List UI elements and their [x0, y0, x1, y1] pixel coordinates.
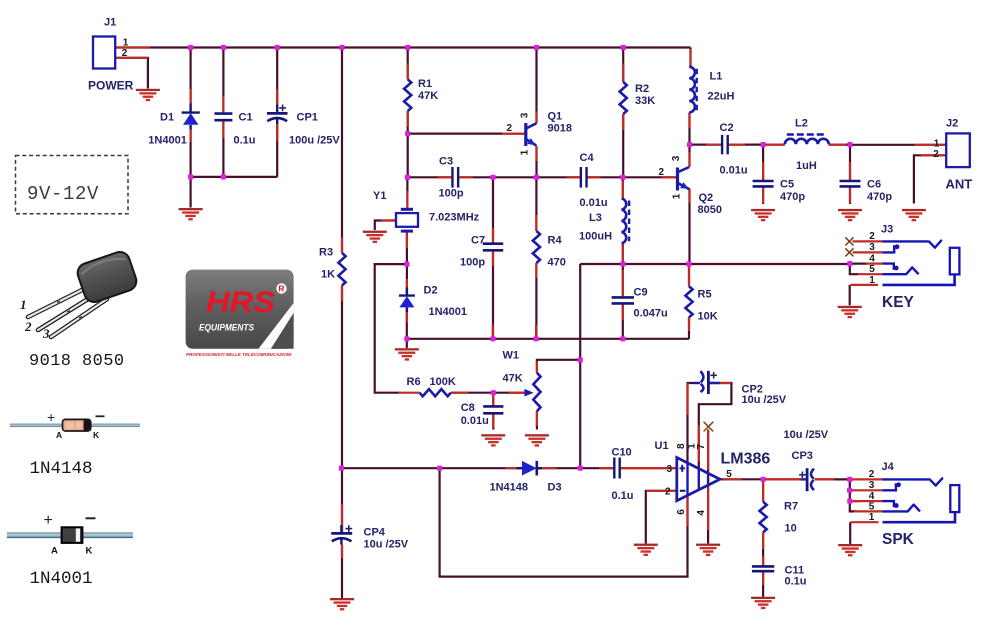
svg-text:5: 5: [869, 501, 875, 512]
wire C4 to L3 node: [587, 176, 623, 178]
ground D2: [395, 348, 419, 360]
wire node to D2: [406, 264, 408, 296]
svg-text:8050: 8050: [698, 204, 722, 216]
svg-text:C8: C8: [461, 402, 475, 414]
wire red pin lead (852.5,252.4)-(882.5,252.4): [853, 251, 883, 253]
node junction (342,47.5): [339, 45, 344, 50]
pin 7 label U1: [696, 443, 707, 449]
pin 2 label J1: [122, 48, 128, 59]
wire Y1 case to ground: [375, 221, 396, 231]
wire red pin lead (620.2,468.2)-(676,468.2): [620, 467, 676, 469]
pin 4 label U1: [696, 510, 707, 516]
svg-text:3: 3: [519, 112, 530, 118]
wire Q2 collector: [688, 145, 690, 167]
wire U1 pin 2 to ground: [646, 491, 676, 544]
capacitor CP2 electrolytic: [695, 371, 787, 406]
svg-text:1: 1: [934, 138, 940, 149]
svg-text:C9: C9: [634, 287, 648, 299]
svg-text:SPK: SPK: [882, 531, 915, 548]
wire red pin lead (851.5,479.4)-(882.5,479.4): [852, 478, 883, 480]
wire red pin lead (622.8,243.5)-(622.8,261): [622, 244, 624, 262]
wire C1 branch lower: [222, 120, 224, 176]
svg-text:1: 1: [869, 512, 875, 523]
ground J1: [136, 89, 160, 101]
node junction (622.8,177.3): [620, 175, 625, 180]
resistor R3 1K: [319, 247, 346, 286]
node junction (190.6,47.5): [188, 45, 193, 50]
diode package photo 1N4001: [7, 512, 133, 557]
wire R2 bottom to node: [622, 114, 624, 177]
wire red pin lead (850,186.6)-(850,203.3): [849, 187, 851, 204]
capacitor C11 0.1u: [752, 565, 807, 588]
wire C11 to ground: [762, 571, 764, 597]
svg-text:K: K: [86, 546, 93, 557]
capacitor C3 100p: [439, 156, 464, 200]
ground C6: [838, 209, 862, 221]
wire C6 leads: [849, 145, 851, 204]
wire R2 column upper: [622, 48, 624, 83]
wire red pin lead (690.5,49)-(690.5,66.6): [689, 49, 691, 67]
wire red pin lead (662,177.3)-(675.8,177.3): [662, 176, 676, 178]
ground J4: [838, 544, 862, 556]
wire U1 pin 8 riser to CP2: [688, 383, 697, 463]
wire red pin lead (508.5,392.7)-(524.5,392.7): [509, 392, 525, 394]
node junction (622.8,264): [620, 261, 625, 266]
ground C8: [481, 434, 505, 446]
wire C7 upper lead: [492, 177, 494, 243]
svg-text:CP1: CP1: [297, 111, 318, 123]
svg-text:2: 2: [506, 123, 512, 134]
wire red pin lead (407.4,191)-(407.4,209.1): [406, 191, 408, 209]
wire J2 pin 2 to ground: [914, 155, 946, 203]
node junction (849.8,479.4): [847, 477, 852, 482]
node junction (190.6,176.9): [188, 174, 193, 179]
wire red pin lead (493,250.5)-(493,266): [492, 251, 494, 267]
inductor L3 100uH: [579, 199, 629, 244]
capacitor C7 100p: [460, 235, 503, 269]
wire node to pot top: [537, 360, 580, 373]
wire R3 column upper: [341, 48, 343, 254]
svg-text:4: 4: [869, 491, 875, 502]
svg-text:3: 3: [671, 155, 682, 161]
wire red pin lead (223.4,120.5)-(223.4,138): [222, 121, 224, 139]
pin 3 label U1: [666, 464, 672, 475]
svg-text:R: R: [278, 284, 284, 294]
svg-text:7.023MHz: 7.023MHz: [429, 212, 480, 224]
svg-text:0.1u: 0.1u: [785, 576, 807, 588]
wire red pin lead (493.3,394.5)-(493.3,406): [492, 395, 494, 407]
wire D1 branch upper: [190, 48, 192, 105]
wire R7 top lead: [762, 479, 764, 502]
wire +V top bus from J1 pin 1 to L1: [115, 46, 691, 48]
node junction (493.3,392.7): [491, 390, 496, 395]
ground J2: [902, 209, 926, 221]
wire L1 column: [689, 48, 691, 67]
wire red pin lead (852.5,241.4)-(882.5,241.4): [853, 240, 883, 242]
connector J2 ANT: [946, 117, 973, 191]
node junction (277.2,47.5): [275, 45, 280, 50]
svg-text:D3: D3: [548, 482, 562, 494]
wire red pin lead (851.8,501.1)-(882.5,501.1): [852, 500, 883, 502]
wire J3 pin 1 to ground: [849, 285, 851, 305]
svg-text:0.01u: 0.01u: [720, 165, 748, 177]
capacitor C6 470p: [840, 179, 893, 203]
wire red pin lead (763.1,162)-(763.1,180.8): [762, 162, 764, 181]
wire red pin lead (536.5,145.9)-(536.5,161): [535, 146, 537, 161]
svg-text:47K: 47K: [418, 90, 438, 102]
pin 3 label Q1: [519, 112, 530, 118]
wire J3 pin 4 stub: [850, 263, 866, 265]
wire J1 pin 2 to ground: [115, 58, 148, 89]
svg-text:1N4001: 1N4001: [429, 306, 468, 318]
svg-text:0.01u: 0.01u: [461, 415, 489, 427]
connector J1: [88, 17, 134, 93]
svg-text:100p: 100p: [460, 257, 485, 269]
wire C8 node to pot wiper: [493, 392, 524, 394]
svg-text:C5: C5: [780, 179, 794, 191]
capacitor C5 470p: [753, 179, 806, 203]
wire C9 upper lead: [622, 264, 624, 296]
svg-text:470p: 470p: [867, 191, 892, 203]
wire red pin lead (687.5,497)-(687.5,526): [686, 497, 688, 526]
svg-text:2: 2: [665, 487, 671, 498]
wire C2 to C5 node: [728, 144, 763, 146]
svg-text:Q1: Q1: [548, 111, 563, 123]
svg-text:A: A: [56, 430, 62, 440]
node junction (849.8,263.6): [847, 261, 852, 266]
ground U1 pin 4: [696, 544, 720, 556]
wire R1 column upper: [407, 48, 409, 80]
svg-text:0.047u: 0.047u: [634, 308, 668, 320]
ground C11: [751, 597, 775, 609]
ground C5: [751, 209, 775, 221]
wire C10 to U1 pin 3: [620, 467, 676, 469]
svg-text:4: 4: [869, 253, 875, 264]
svg-text:470p: 470p: [780, 191, 805, 203]
wire collector node to C2: [690, 144, 723, 146]
svg-text:2: 2: [933, 149, 939, 160]
svg-text:22uH: 22uH: [708, 91, 735, 103]
ground CP4: [330, 598, 354, 610]
capacitor C9 0.047u: [612, 287, 668, 320]
node junction (622.8,338.8): [620, 336, 625, 341]
capacitor C4 0.01u: [580, 152, 608, 209]
node junction (536.1,338.8): [534, 336, 539, 341]
pin 5 label J4: [869, 501, 875, 512]
node junction (407.7,133.6): [405, 131, 410, 136]
wire red pin lead (190.6,129.5)-(190.6,142): [190, 130, 192, 143]
wire L2 to C6 node: [829, 144, 850, 146]
wire keying line: [580, 263, 850, 265]
wire red pin lead (566.5,177.3)-(580.5,177.3): [567, 176, 581, 178]
wire red pin lead (406.9,231.3)-(406.9,248): [406, 231, 408, 248]
wire red pin lead (689.5,152.5)-(689.5,166.5): [688, 153, 690, 167]
wire CP1 branch upper: [276, 48, 278, 105]
wire red pin lead (505.5,468.2)-(521.6,468.2): [506, 467, 522, 469]
node junction (689.5,144.6): [687, 142, 692, 147]
pin 1 label Q2: [672, 193, 683, 199]
ground W1: [525, 434, 549, 446]
no-connect X J3 pin 3: [846, 249, 853, 256]
wire node to Y1 top: [406, 177, 408, 209]
transistor Q2 8050: [678, 167, 722, 216]
wire red pin lead (493,228)-(493,243.6): [492, 228, 494, 244]
svg-text:PROFESSIONISTI NELLE TELECOMUN: PROFESSIONISTI NELLE TELECOMUNICAZIONI: [186, 352, 292, 357]
wire red pin lead (763.1,186.6)-(763.1,203.3): [762, 187, 764, 204]
wire red pin lead (850,162)-(850,180.8): [849, 162, 851, 181]
node junction (580.2,360): [578, 357, 583, 362]
svg-text:D1: D1: [160, 111, 174, 123]
node junction (407.4,177.3): [405, 175, 410, 180]
wire red pin lead (689,317.3)-(689,331): [688, 317, 690, 331]
wire U1 output pin 5: [720, 478, 763, 480]
wire D2 node to ground: [406, 339, 408, 348]
ground Y1 case: [363, 231, 387, 243]
svg-text:EQUIPMENTS: EQUIPMENTS: [199, 323, 254, 333]
svg-text:10u /25V: 10u /25V: [784, 429, 829, 441]
svg-text:1: 1: [672, 193, 683, 199]
svg-text:R1: R1: [418, 78, 432, 90]
pin 3 label J4: [869, 480, 875, 491]
svg-text:1N4001: 1N4001: [30, 569, 93, 589]
wire red pin lead (342,544.5)-(342,558): [341, 545, 343, 559]
node junction (763.1,144.6): [761, 142, 766, 147]
svg-text:C1: C1: [239, 111, 253, 123]
label 1N4148: [30, 459, 93, 479]
wire red pin lead (536.5,111.5)-(536.5,123.3): [535, 112, 537, 124]
wire J4 pin 4 stub: [850, 500, 860, 502]
svg-text:J1: J1: [104, 17, 116, 29]
resistor R2 33K: [620, 82, 656, 114]
wire red pin lead (728,144.6)-(745,144.6): [728, 144, 745, 146]
wire C9 lower lead: [622, 305, 624, 339]
svg-text:2: 2: [24, 319, 32, 334]
wire red pin lead (536.4,263.2)-(536.4,278): [535, 263, 537, 278]
svg-text:3: 3: [869, 242, 875, 253]
wire pot bottom lead: [536, 411, 538, 429]
wire C3 line left: [407, 176, 451, 178]
wire Y1 bottom to node: [406, 231, 408, 264]
wire red pin lead (850.4,522.2)-(878.5,522.2): [850, 521, 878, 523]
svg-text:0.01u: 0.01u: [580, 197, 608, 209]
svg-text:8: 8: [676, 443, 687, 449]
wire R4 upper lead: [535, 177, 537, 231]
svg-text:10: 10: [785, 523, 797, 535]
svg-text:Y1: Y1: [373, 190, 386, 202]
ground U1 pin 2: [634, 544, 658, 556]
svg-text:D2: D2: [424, 285, 438, 297]
node junction (492.8,338.8): [490, 336, 495, 341]
node junction (689,264): [686, 261, 691, 266]
wire node to CP3: [763, 478, 801, 480]
wire red pin lead (492.8,324.5)-(492.8,338): [492, 325, 494, 339]
wire red pin lead (851.5,490.3)-(882.5,490.3): [852, 489, 883, 491]
wire red pin lead (719.7,383)-(731,383): [720, 382, 731, 384]
wire red pin lead (277.2,89)-(277.2,104.5): [276, 89, 278, 105]
label 1N4001: [30, 569, 93, 589]
node junction (849.6,490.3): [847, 488, 852, 493]
wire L3 bottom to node: [622, 243, 624, 264]
node junction (406.8,338.8): [404, 336, 409, 341]
svg-text:+: +: [44, 512, 53, 529]
wire red pin lead (115.2,57.8)-(147.9,57.8): [115, 57, 148, 59]
wire emitter node to C4: [536, 176, 580, 178]
wire Q1 collector column: [535, 48, 537, 124]
wire red pin lead (766,144.6)-(784.6,144.6): [766, 144, 785, 146]
pin 1 label U1: [687, 443, 698, 449]
inductor L1 22uH: [689, 67, 734, 113]
wire red pin lead (623.2,63.5)-(623.2,82): [622, 64, 624, 83]
pin 4 label J3: [869, 253, 875, 264]
wire red pin lead (406.9,279)-(406.9,287.5): [406, 279, 408, 288]
wire U1 pin 4 to ground: [707, 485, 709, 544]
svg-text:R6: R6: [407, 376, 421, 388]
wire J3 pin 4-5 tie: [850, 264, 858, 275]
wire red pin lead (828.8,144.6)-(846,144.6): [829, 144, 846, 146]
svg-text:1: 1: [20, 297, 27, 312]
pin 1 label Q1: [519, 149, 530, 155]
wire red pin lead (536.1,324.5)-(536.1,338): [535, 325, 537, 339]
pin 1 label J2: [934, 138, 940, 149]
capacitor CP3 electrolytic: [784, 429, 829, 491]
node junction (223.4,47.5): [221, 45, 226, 50]
voltage note 9V-12V: [16, 156, 129, 214]
wire red pin lead (115.2,47.5)-(150,47.5): [115, 46, 150, 48]
svg-text:10u /25V: 10u /25V: [742, 394, 787, 406]
label SPK: [882, 531, 915, 548]
crystal Y1 7.023MHz: [373, 190, 480, 231]
node junction (406.9,264.1): [404, 262, 409, 267]
pin 2 label U1: [665, 487, 671, 498]
node junction (763.1,479.3): [761, 477, 766, 482]
svg-text:47K: 47K: [503, 373, 523, 385]
svg-text:1: 1: [869, 275, 875, 286]
svg-text:C4: C4: [580, 152, 595, 164]
svg-text:W1: W1: [503, 350, 520, 362]
wire R3 column lower: [341, 285, 343, 468]
wire red pin lead (763.1,571.5)-(763.1,585): [762, 572, 764, 586]
svg-text:5: 5: [726, 469, 732, 480]
wire L3 top lead: [622, 177, 624, 198]
svg-text:KEY: KEY: [882, 294, 915, 311]
wire CP4 branch: [341, 468, 343, 598]
ground J3: [838, 306, 862, 318]
transistor package photo 9018 8050: [20, 249, 139, 341]
wire R1 bottom to base node: [407, 111, 409, 177]
wire red pin lead (407.7,63.5)-(407.7,79.3): [407, 64, 409, 80]
wire C6 node to J2 pin 1: [850, 144, 946, 146]
pin 8 label U1: [676, 443, 687, 449]
wire C8 leads: [492, 393, 494, 430]
wire D2 to bottom rail: [406, 308, 408, 339]
pin 5 label U1: [726, 469, 732, 480]
svg-text:4: 4: [696, 510, 707, 516]
svg-text:3: 3: [666, 464, 672, 475]
wire J4 pin 1 to ground: [849, 522, 851, 544]
wire D1 branch lower: [190, 129, 192, 177]
svg-text:100K: 100K: [430, 376, 456, 388]
svg-text:1: 1: [123, 37, 129, 48]
svg-text:3: 3: [42, 326, 50, 341]
pin 2 label Q2: [658, 167, 664, 178]
capacitor C10 0.1u: [612, 447, 634, 502]
svg-text:L1: L1: [710, 71, 723, 83]
wire R5 top lead: [688, 264, 690, 286]
label KEY: [882, 294, 915, 311]
pin 1 label J4: [869, 512, 875, 523]
svg-text:10K: 10K: [698, 311, 718, 323]
svg-text:9V-12V: 9V-12V: [27, 183, 99, 205]
wire red pin lead (866,263.6)-(882.5,263.6): [866, 263, 883, 265]
resistor R6 100K: [407, 376, 456, 396]
potentiometer W1 47K: [503, 350, 541, 412]
svg-text:+: +: [47, 409, 55, 425]
pin 5 label J3: [869, 264, 875, 275]
svg-text:J4: J4: [882, 461, 895, 473]
svg-text:C10: C10: [612, 447, 632, 459]
pin 2 label J2: [933, 149, 939, 160]
svg-text:LM386: LM386: [721, 451, 771, 468]
wire red pin lead (708.1,430)-(708.1,469.5): [707, 430, 709, 470]
pin 2 label J3: [869, 231, 875, 242]
wire red pin lead (914.5,144.8)-(946,144.8): [915, 144, 947, 146]
wire R5 bottom lead: [688, 317, 690, 339]
label 9018 8050: [29, 352, 124, 371]
diode D1 1N4001: [148, 104, 200, 147]
wire R6 to C8 node: [451, 392, 494, 394]
svg-text:9018: 9018: [548, 123, 572, 135]
svg-text:1N4001: 1N4001: [148, 135, 187, 147]
svg-text:C6: C6: [867, 179, 881, 191]
node junction (623.2,47.5): [621, 45, 626, 50]
svg-text:R4: R4: [548, 235, 563, 247]
svg-text:J3: J3: [881, 224, 893, 236]
op-amp U1 LM386: [655, 440, 771, 501]
node junction (580.2,468.2): [578, 466, 583, 471]
svg-text:100u /25V: 100u /25V: [289, 135, 340, 147]
svg-text:2: 2: [869, 469, 875, 480]
wire red pin lead (763.1,481)-(763.1,501.6): [762, 481, 764, 502]
svg-text:0.1u: 0.1u: [234, 135, 256, 147]
wire red pin lead (921,155.3)-(946,155.3): [921, 154, 946, 156]
wire red pin lead (858,274.2)-(882.5,274.2): [858, 273, 883, 275]
wire red pin lead (493.3,413.7)-(493.3,428): [492, 414, 494, 428]
pin 3 label J3: [869, 242, 875, 253]
pin 1 label J3: [869, 275, 875, 286]
wire L3 node to Q2 base: [623, 176, 676, 178]
wire node left to R6: [375, 264, 407, 393]
wire C5 node to L2: [763, 144, 785, 146]
svg-text:470: 470: [548, 257, 566, 269]
wire C7 lower lead: [492, 250, 494, 338]
wire red pin lead (437.8,177.3)-(451.2,177.3): [438, 176, 451, 178]
wire red pin lead (502,133.6)-(524.5,133.6): [502, 133, 525, 135]
wire red pin lead (646.5,490.8)-(676,490.8): [647, 490, 677, 492]
wire red pin lead (536.9,411.3)-(536.9,426): [536, 411, 538, 426]
wire red pin lead (721,479.3)-(741.5,479.3): [721, 478, 742, 480]
wire V+ feedback to U1 pin 6: [440, 468, 688, 576]
wire red pin lead (459.6,177.3)-(473,177.3): [460, 176, 473, 178]
node junction (341.4,468.2): [339, 466, 344, 471]
svg-text:5: 5: [869, 264, 875, 275]
node junction (850,144.6): [847, 142, 852, 147]
diode package photo 1N4148: [10, 409, 140, 440]
svg-text:J2: J2: [946, 117, 958, 129]
pin 3 label Q2: [671, 155, 682, 161]
capacitor C8 0.01u: [461, 402, 504, 427]
node junction (536.4,177.3): [534, 175, 539, 180]
connector J4 SPK jack: [882, 461, 960, 522]
